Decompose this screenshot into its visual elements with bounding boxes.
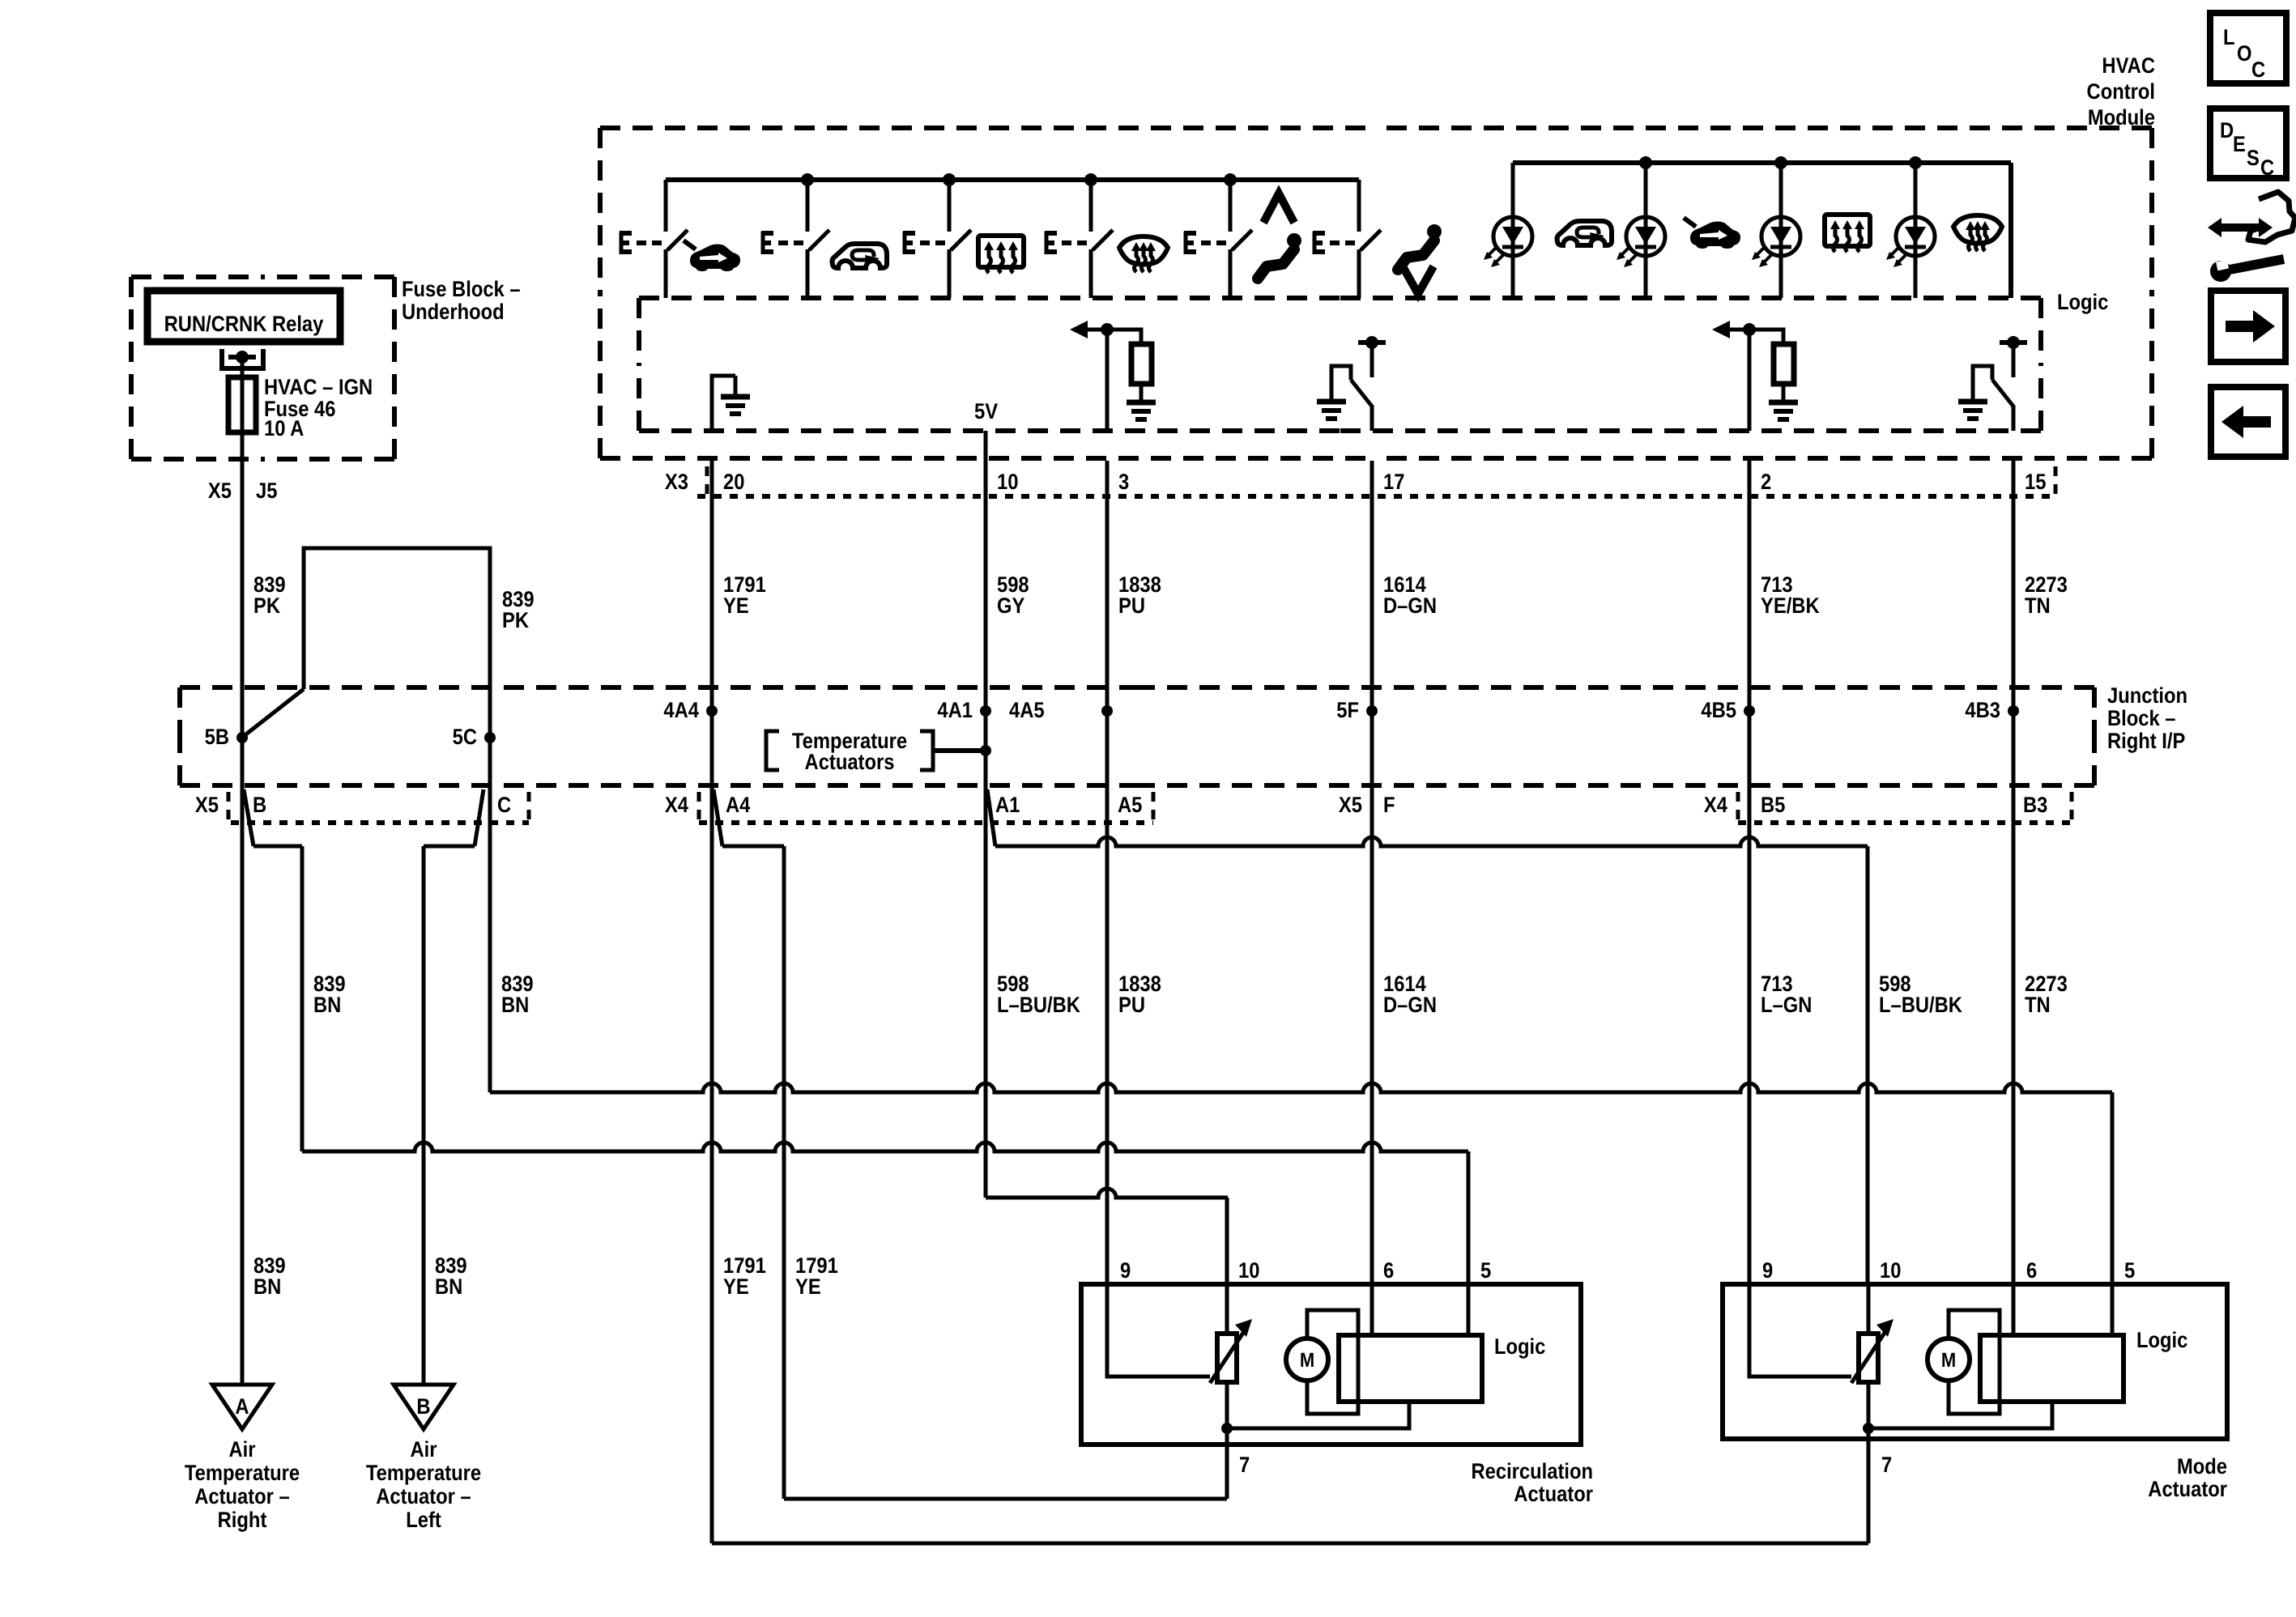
svg-text:L: L	[2223, 25, 2235, 49]
wire 598 run to mode actuator	[995, 837, 1868, 846]
svg-text:A: A	[235, 1394, 249, 1419]
svg-text:4A5: 4A5	[1009, 698, 1045, 722]
node 5F	[1366, 705, 1378, 717]
svg-text:YE: YE	[723, 594, 749, 618]
svg-text:Right I/P: Right I/P	[2107, 729, 2185, 753]
svg-text:Actuator: Actuator	[1514, 1482, 1593, 1506]
svg-text:O: O	[2237, 41, 2251, 66]
svg-text:Right: Right	[218, 1508, 267, 1532]
icon box DESC	[2210, 109, 2286, 178]
wire 1838 PU (pin3 down)	[1105, 461, 1110, 711]
svg-text:BN: BN	[313, 993, 341, 1017]
wire recirc pin7 drop	[1225, 1445, 1229, 1499]
svg-text:Actuator –: Actuator –	[194, 1484, 290, 1508]
node bus2 dot led3	[1774, 156, 1787, 169]
wire F down (1614 D-GN)	[1370, 789, 1374, 1335]
svg-text:L–BU/BK: L–BU/BK	[1879, 993, 1962, 1017]
icon box arrow right	[2211, 291, 2285, 362]
svg-text:3: 3	[1118, 470, 1129, 494]
svg-text:A4: A4	[726, 793, 750, 817]
wire fuse down through X5-J5	[241, 432, 245, 689]
svg-text:L–BU/BK: L–BU/BK	[997, 993, 1080, 1017]
wire 839 BN branch down	[300, 846, 305, 1151]
wire slant into 5B	[244, 689, 304, 736]
svg-text:Air: Air	[228, 1437, 255, 1462]
svg-text:B3: B3	[2023, 793, 2047, 817]
svg-text:M: M	[1300, 1349, 1314, 1372]
svg-text:S: S	[2247, 146, 2260, 170]
node bus1 dot sw5	[1224, 173, 1237, 186]
node bus1 dot sw3	[943, 173, 956, 186]
svg-text:TN: TN	[2025, 993, 2051, 1017]
svg-text:HVAC – IGN: HVAC – IGN	[264, 375, 373, 399]
wire 4A1 through	[984, 711, 988, 789]
wire C branch slant	[475, 789, 483, 846]
LED D4 indicator	[1914, 163, 1918, 298]
connector X4 separator	[697, 792, 701, 819]
svg-text:F: F	[1383, 793, 1395, 817]
svg-text:RUN/CRNK Relay: RUN/CRNK Relay	[164, 312, 324, 336]
wire 1791 YE run to recirc pin7	[784, 1497, 1227, 1501]
svg-text:X4: X4	[665, 793, 688, 817]
icon component locator (arrow wrench)	[2208, 218, 2273, 237]
svg-text:X5: X5	[1339, 793, 1362, 817]
wire 1791 YE run to mode pin7	[712, 1542, 1868, 1546]
svg-text:Module: Module	[2088, 105, 2155, 130]
svg-text:4B5: 4B5	[1701, 698, 1736, 722]
node temp actuators junction	[980, 745, 991, 756]
wire 4B3 through	[2012, 711, 2016, 789]
wire ground stem (pin 20)	[734, 376, 738, 395]
LED D1 indicator	[1511, 163, 1515, 298]
wire 5F through	[1370, 711, 1374, 789]
svg-text:BN: BN	[435, 1274, 462, 1299]
connector X3 end separator	[2054, 466, 2058, 494]
LED D2 indicator	[1644, 163, 1648, 298]
icon box arrow left	[2211, 387, 2285, 457]
wire 839 BN run (B to recirc pin5)	[302, 1143, 1468, 1151]
svg-text:4A1: 4A1	[937, 698, 973, 722]
node 5C	[484, 732, 496, 743]
node 4A5	[1101, 705, 1113, 717]
icon rear defrost (D3)	[1825, 215, 1870, 246]
wire bus2 (LED common)	[1513, 160, 2011, 165]
svg-text:Temperature: Temperature	[185, 1461, 300, 1485]
svg-text:17: 17	[1383, 470, 1404, 494]
wire 839 PK (fuse to 5B)	[241, 689, 245, 738]
svg-text:15: 15	[2025, 470, 2046, 494]
svg-text:PU: PU	[1118, 993, 1145, 1017]
connector X4B bottom dotted line	[1738, 820, 2072, 825]
svg-text:D–GN: D–GN	[1383, 594, 1437, 618]
relay output connector bracket	[219, 349, 224, 371]
icon fresh-air car (D2)	[1690, 222, 1740, 249]
wire 598 GY (pin10 down)	[984, 461, 988, 711]
svg-text:Actuator –: Actuator –	[376, 1484, 471, 1508]
svg-text:Underhood: Underhood	[402, 300, 505, 324]
svg-text:BN: BN	[253, 1274, 281, 1299]
switch S1 (E ladder input)	[664, 180, 668, 232]
signal sense R1 network (pin 3)	[1105, 330, 1110, 431]
wire A1 slant	[987, 789, 995, 846]
wire C branch jog	[424, 845, 475, 849]
svg-text:4A4: 4A4	[663, 698, 699, 722]
wire drop to recirc pin10	[1225, 1198, 1229, 1284]
svg-text:X5: X5	[208, 479, 232, 503]
svg-text:Temperature: Temperature	[366, 1461, 481, 1485]
node 4A1	[980, 705, 991, 717]
icon windshield defrost (D4)	[1953, 215, 2002, 244]
wire 713 YE/BK (pin2 down)	[1748, 461, 1752, 711]
svg-text:J5: J5	[256, 479, 277, 503]
svg-text:Control: Control	[2087, 79, 2155, 104]
svg-text:C: C	[2260, 155, 2274, 180]
svg-text:5: 5	[1480, 1258, 1491, 1283]
svg-text:Recirculation: Recirculation	[1471, 1459, 1593, 1483]
node 4B3	[2008, 705, 2019, 717]
LED D3 indicator	[1779, 163, 1783, 298]
wire B straight down to triangle A	[241, 789, 245, 1385]
fuse F46 HVAC-IGN 10A	[228, 377, 256, 432]
wire A4 branch slant	[714, 789, 722, 846]
svg-text:Logic: Logic	[1494, 1334, 1545, 1359]
svg-text:D–GN: D–GN	[1383, 993, 1437, 1017]
icon seat (S5)	[1287, 233, 1301, 248]
svg-text:5V: 5V	[974, 399, 998, 423]
wire B branch slant	[244, 789, 253, 846]
inner logic dashed box	[639, 296, 1340, 300]
connector X4 right separator	[1152, 792, 1156, 819]
svg-text:B5: B5	[1761, 793, 1785, 817]
svg-text:10: 10	[1238, 1258, 1259, 1283]
svg-text:A1: A1	[995, 793, 1020, 817]
svg-text:A5: A5	[1118, 793, 1142, 817]
connector X3 separator	[705, 466, 709, 494]
svg-text:X3: X3	[665, 470, 688, 494]
svg-text:Air: Air	[410, 1437, 437, 1462]
icon windshield defrost (S4)	[1119, 236, 1168, 265]
node bus1 dot sw2	[801, 173, 814, 186]
node bus2 dot led4	[1909, 156, 1922, 169]
wire 1791 YE branch down	[782, 846, 786, 1499]
wire 5B through	[241, 738, 245, 789]
svg-text:Logic: Logic	[2057, 290, 2108, 314]
svg-text:BN: BN	[501, 993, 529, 1017]
svg-text:6: 6	[1383, 1258, 1394, 1283]
wire 839 BN run (C to mode pin5)	[490, 1083, 2112, 1092]
wire drop to recirc pin5	[1467, 1151, 1471, 1284]
wire A4 branch jog	[722, 845, 784, 849]
wire B branch jog	[253, 845, 302, 849]
svg-text:X5: X5	[195, 793, 219, 817]
connector X4 bottom dotted line	[699, 820, 1153, 825]
wire 839 BN to triangle B	[422, 846, 426, 1385]
svg-text:X4: X4	[1704, 793, 1727, 817]
icon seat (S6)	[1427, 224, 1442, 239]
mode actuator M2 box and internals	[1723, 1284, 2227, 1439]
svg-text:5F: 5F	[1336, 698, 1359, 722]
relay K: RUN/CRNK Relay box	[147, 291, 340, 342]
svg-text:20: 20	[723, 470, 744, 494]
wire B3 down (2273 TN)	[2012, 789, 2016, 1335]
wire B5 down (713 L-GN)	[1748, 789, 1752, 1377]
node J5 junction dot	[236, 351, 249, 364]
svg-text:Actuators: Actuators	[805, 750, 895, 774]
svg-text:7: 7	[1881, 1453, 1892, 1477]
wire 2273 TN (pin15 down)	[2012, 461, 2016, 711]
svg-text:D: D	[2220, 118, 2234, 143]
triangle A (air temp actuator right)	[212, 1385, 272, 1429]
signal sense R2 network (pin 2)	[1748, 330, 1752, 431]
svg-text:YE: YE	[723, 1274, 749, 1299]
switch S2 (E ladder input)	[806, 180, 810, 232]
node bus1 dot sw4	[1084, 173, 1097, 186]
node 5B	[236, 732, 248, 743]
svg-text:6: 6	[2026, 1258, 2037, 1283]
svg-text:7: 7	[1239, 1453, 1250, 1477]
wire drop to mode pin5	[2111, 1092, 2115, 1284]
wire C straight down	[488, 789, 492, 1092]
svg-text:PK: PK	[502, 608, 529, 632]
svg-text:4B3: 4B3	[1965, 698, 2000, 722]
ground G1 (pin 20)	[721, 394, 750, 400]
svg-text:Block –: Block –	[2107, 706, 2176, 730]
icon seat up chevron (S5)	[1263, 194, 1294, 223]
svg-text:YE/BK: YE/BK	[1761, 594, 1820, 618]
icon recirculation car (D1)	[1557, 221, 1612, 245]
wire A5 down (1838 PU)	[1105, 789, 1110, 1377]
svg-text:PU: PU	[1118, 594, 1145, 618]
triangle B (air temp actuator left)	[394, 1385, 454, 1429]
wire temp actuators tap	[933, 748, 986, 753]
HVAC control module dashed box	[600, 126, 1376, 130]
wire 598 drop to mode pin10	[1866, 846, 1870, 1284]
switch to ground (pin 15)	[2000, 340, 2027, 345]
svg-text:Logic: Logic	[2136, 1328, 2187, 1352]
wire 598 run to recirc pot	[986, 1189, 1228, 1198]
wire loop 839 PK over to 5C	[304, 548, 490, 689]
svg-text:E: E	[2233, 132, 2246, 156]
wire 4A5 through	[1105, 711, 1110, 789]
connector X5 separator	[227, 792, 231, 819]
svg-text:10 A: 10 A	[264, 416, 304, 440]
node 4A4	[706, 705, 718, 717]
svg-text:Junction: Junction	[2107, 683, 2187, 708]
svg-text:5: 5	[2124, 1258, 2135, 1283]
svg-text:10: 10	[997, 470, 1018, 494]
svg-text:Mode: Mode	[2177, 1454, 2227, 1479]
svg-text:B: B	[416, 1394, 430, 1419]
connector X3 bottom dotted line	[697, 494, 2055, 499]
connector X4B separator	[1736, 792, 1740, 819]
svg-text:5B: 5B	[205, 725, 229, 749]
svg-text:PK: PK	[253, 594, 280, 618]
svg-text:M: M	[1941, 1349, 1956, 1372]
wire 5V source pin10	[984, 431, 988, 461]
connector X4B right separator	[2070, 792, 2074, 819]
switch to ground (pin 17)	[1358, 340, 1386, 345]
recirculation actuator M1 box and internals	[1081, 1284, 1581, 1445]
wire pin20 to ground	[712, 376, 735, 431]
wire 5C down	[488, 689, 492, 738]
switch S3 (E ladder input)	[948, 180, 952, 232]
switch S6 (E ladder input)	[1357, 180, 1361, 232]
wire bus2 right end into logic	[2008, 163, 2013, 298]
icon rear defrost (S3)	[978, 236, 1024, 267]
svg-text:C: C	[2251, 57, 2265, 82]
temperature actuators bracket left	[766, 731, 779, 770]
wire 1614 D-GN (pin17 down)	[1370, 461, 1374, 711]
svg-text:10: 10	[1880, 1258, 1901, 1283]
junction block dashed box	[180, 685, 1137, 690]
fuse block - underhood dashed box	[131, 274, 262, 279]
svg-text:L–GN: L–GN	[1761, 993, 1812, 1017]
svg-text:Fuse Block –: Fuse Block –	[402, 277, 521, 301]
svg-text:C: C	[497, 793, 511, 817]
wire 4B5 through	[1748, 711, 1752, 789]
svg-text:5C: 5C	[453, 725, 477, 749]
svg-text:2: 2	[1761, 470, 1771, 494]
switch S5 (E ladder input)	[1229, 180, 1233, 232]
svg-text:9: 9	[1762, 1258, 1773, 1283]
svg-text:Left: Left	[406, 1508, 441, 1532]
switch S4 (E ladder input)	[1089, 180, 1093, 232]
icon fresh-air car (S1)	[690, 245, 740, 272]
node bus2 dot led2	[1639, 156, 1652, 169]
svg-text:YE: YE	[795, 1274, 821, 1299]
wire relay to fuse	[241, 357, 245, 377]
wire 4A4 through	[710, 711, 714, 789]
wire A1 straight down (598)	[984, 789, 988, 1198]
connector X5 bottom dotted line	[231, 820, 529, 825]
wire mode pin7 drop	[1867, 1439, 1871, 1543]
icon box LOC	[2210, 13, 2286, 83]
svg-text:9: 9	[1120, 1258, 1131, 1283]
wire 1791 YE (pin20 down)	[710, 461, 714, 711]
svg-text:HVAC: HVAC	[2102, 53, 2155, 78]
temperature actuators bracket right	[920, 731, 933, 770]
wire 5C through	[488, 738, 492, 789]
wire bus1 (switch common)	[666, 177, 1359, 182]
icon recirculation car (S2)	[833, 244, 888, 268]
svg-text:TN: TN	[2025, 594, 2051, 618]
connector X5 right separator	[527, 792, 531, 819]
wire A4 straight down (1791 YE)	[710, 789, 714, 1543]
svg-text:Actuator: Actuator	[2148, 1477, 2227, 1501]
svg-text:GY: GY	[997, 594, 1024, 618]
svg-text:B: B	[253, 793, 266, 817]
node 4B5	[1744, 705, 1755, 717]
icon seat down chevron (S6)	[1403, 266, 1433, 294]
